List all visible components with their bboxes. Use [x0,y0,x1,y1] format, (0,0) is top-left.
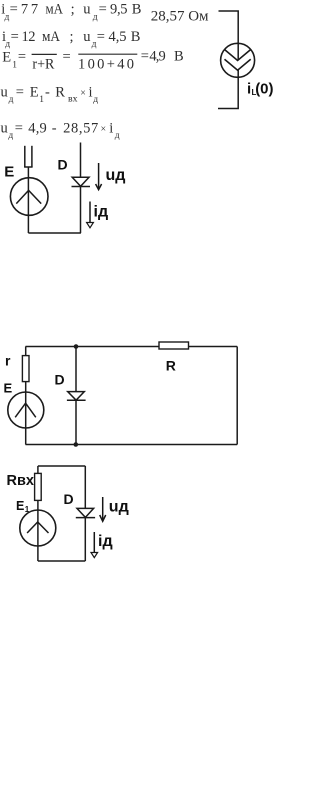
circuit B: source E (circle with up arrow) [8,392,44,428]
svg-text:В: В [131,29,141,45]
circuit B: top wire [26,346,238,348]
fraction bar 1 [32,53,57,55]
svg-text:-: - [45,84,50,100]
svg-text:4,9: 4,9 [28,120,47,136]
svg-text:=: = [11,29,19,45]
svg-text:=: = [18,49,26,65]
svg-text:=: = [15,120,23,136]
circuit A: source E (circle with up arrow) [10,178,48,216]
svg-text:=: = [10,2,18,18]
svg-text:д: д [5,40,10,50]
value label 28,57 Ом [151,8,209,24]
svg-text:E: E [30,84,39,100]
svg-text:д: д [8,131,13,141]
formula line 5: ud = 4,9 - 28,57 * id [1,120,120,141]
svg-text:28,57 Ом: 28,57 Ом [151,8,209,24]
svg-text:R: R [55,84,65,100]
svg-text:E: E [2,49,11,65]
svg-text:=: = [99,2,107,18]
svg-text:д: д [115,131,120,141]
circuit A: bottom wire [28,232,81,234]
svg-text:r+R: r+R [32,56,54,72]
svg-text:E: E [16,499,24,513]
fraction bar 2 [78,53,137,55]
svg-text:-: - [52,120,57,136]
circuit B: left vertical wire [25,347,27,445]
circuit B: diode D branch [67,347,86,445]
svg-text:В: В [132,2,142,18]
svg-text:R: R [166,358,176,374]
wire: current source top stub [219,11,239,60]
svg-text:i: i [89,84,93,100]
circuit C: bottom wire [38,560,85,562]
circuit A: diode D [72,143,91,234]
formula line 2: id = 12 mA ; ud = 4,5 V [2,29,140,50]
svg-text:i: i [109,120,113,136]
svg-text:д: д [93,95,98,105]
svg-text:=: = [63,49,71,65]
wire: current source bottom stub [218,70,238,109]
circuit C: label E1 [16,499,30,514]
svg-text:u: u [1,120,8,136]
svg-text:вх: вх [68,94,78,104]
circuit C: resistor Rvx [35,473,42,500]
svg-text:=: = [16,84,24,100]
circuit C: diode D branch [76,466,95,561]
label iL(0) [247,81,274,98]
svg-text:д: д [9,95,14,105]
circuit C: arrow ud [100,497,106,521]
svg-text:E: E [4,381,13,396]
svg-text:д: д [93,12,98,22]
svg-text:D: D [64,491,74,507]
svg-text:u: u [83,29,90,45]
circuit B: node (bottom junction) [74,442,79,447]
svg-text:100+40: 100+40 [78,56,134,72]
svg-text:мА: мА [42,29,60,45]
svg-text:;: ; [70,29,74,45]
svg-text:(0): (0) [255,81,273,98]
svg-text:Rвх: Rвх [7,473,34,489]
svg-text:u: u [83,2,90,18]
circuit C: source E1 (circle with up arrow) [20,510,56,546]
svg-text:мА: мА [46,2,64,18]
svg-text:1: 1 [39,95,44,105]
svg-text:D: D [55,372,65,388]
svg-text:1: 1 [12,61,17,71]
circuit C: top wire [38,465,85,467]
svg-text:×: × [80,88,86,99]
svg-text:iд: iд [98,533,113,550]
formula line 4: ud = E1 - Rvx * id [1,84,99,105]
svg-text:uд: uд [106,167,126,184]
circuit B: resistor R [159,342,189,349]
svg-text:4,5: 4,5 [109,29,127,45]
svg-text:iд: iд [94,204,109,221]
current source iL(0) [221,43,255,77]
svg-text:9,5: 9,5 [110,2,128,18]
circuit A: resistor (partial, open top) on E branch [24,146,32,167]
svg-text:;: ; [71,2,75,18]
formula line 3: E1 = /(r+R) = /(100+40) = 4,9 V [2,49,183,73]
circuit B: node (top junction) [74,344,79,349]
svg-text:=: = [141,49,149,65]
circuit B: right vertical wire [236,347,238,445]
formula line 1: id = 77 mA ; ud = 9,5 V [1,2,141,23]
svg-text:D: D [58,157,68,173]
svg-text:В: В [174,49,184,65]
svg-text:=: = [97,29,105,45]
svg-text:77: 77 [21,2,38,18]
circuit B: bottom wire [26,444,238,446]
svg-text:4,9: 4,9 [149,49,165,65]
circuit A: arrow ud [96,163,102,190]
svg-text:E: E [4,164,14,181]
circuit C: left vertical wire [37,466,39,561]
svg-text:r: r [5,353,11,369]
svg-text:uд: uд [109,499,129,516]
circuit A: arrow id [87,202,94,228]
svg-text:u: u [1,84,8,100]
svg-text:×: × [101,124,107,135]
circuit C: arrow id [91,532,98,558]
svg-text:12: 12 [22,29,36,45]
svg-text:28,57: 28,57 [63,120,98,136]
circuit B: resistor r [22,356,29,382]
